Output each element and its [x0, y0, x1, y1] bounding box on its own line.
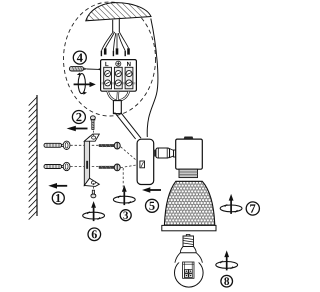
wall anchor 1	[44, 141, 70, 149]
bulb inner socket	[183, 262, 194, 278]
circled 4	[73, 51, 86, 64]
rotate icon step6	[83, 201, 105, 221]
detail bubble dashed ellipse	[64, 2, 156, 116]
dashed vertical to step3	[122, 168, 124, 187]
arrow step5	[150, 189, 162, 191]
bulb glass	[175, 259, 204, 288]
stripped wire tips	[101, 48, 130, 56]
arrow step1	[56, 185, 67, 187]
keyhole	[140, 161, 145, 168]
arm	[156, 148, 170, 158]
bracket vertical dashed	[93, 131, 95, 138]
lamp head	[176, 139, 203, 169]
terminal mid band	[102, 82, 136, 84]
wall hatch	[29, 97, 37, 220]
screw step6	[91, 190, 96, 198]
ceiling wires fan	[102, 32, 129, 51]
rotate icon step3	[113, 185, 135, 205]
rotate icon step8	[216, 250, 238, 270]
circled 8	[221, 275, 233, 287]
lamp wall plate	[137, 139, 154, 184]
rotate icon step4	[78, 74, 85, 94]
wall anchor 2	[44, 162, 70, 170]
ceiling cable	[112, 20, 114, 32]
shade rim	[162, 225, 216, 230]
head nub	[184, 137, 194, 140]
circled 3	[120, 210, 131, 221]
long screw 2	[99, 164, 120, 171]
socket shroud	[179, 169, 198, 177]
dashed leaders screws to keyhole	[121, 147, 139, 163]
hanging cable curve	[147, 19, 158, 138]
joint	[154, 150, 156, 157]
bulb neck	[180, 247, 196, 253]
terminal screws	[105, 71, 132, 86]
bracket	[84, 134, 99, 186]
label L	[105, 62, 108, 66]
ground symbol	[116, 61, 121, 66]
circled 2	[72, 111, 85, 124]
arrow step2	[75, 128, 88, 130]
terminal columns	[104, 67, 133, 89]
screw step2	[90, 116, 95, 130]
screwdriver	[69, 67, 83, 71]
terminal block	[101, 60, 137, 92]
wires from block to sleeve	[108, 91, 129, 100]
dashed leaders anchors	[70, 144, 99, 146]
lamp shade	[164, 181, 214, 225]
ceiling dome	[86, 3, 151, 21]
long screw 1	[99, 142, 120, 149]
label N	[127, 62, 131, 66]
circled 5	[146, 199, 159, 212]
bulb base contact	[186, 235, 190, 237]
circled 7	[246, 202, 259, 215]
cable to lamp	[115, 112, 136, 139]
bulb screw base	[183, 236, 194, 247]
circled 6	[88, 228, 101, 241]
circled 1	[52, 192, 64, 204]
cable sleeve	[113, 101, 121, 114]
rotate icon step7	[220, 194, 242, 214]
wall line	[36, 95, 38, 216]
